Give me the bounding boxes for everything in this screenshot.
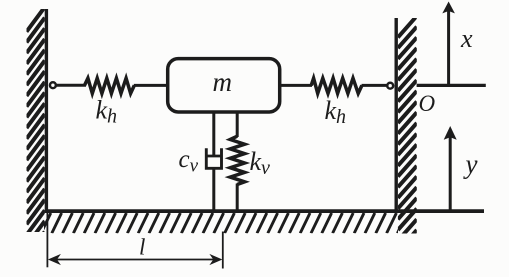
pivot circle on right wall [387, 83, 393, 89]
x axis arrowhead [442, 2, 455, 14]
svg-text:y: y [463, 149, 478, 179]
dimension line l [50, 259, 220, 261]
dimension arrowhead right [209, 254, 222, 265]
spring kv vertical [230, 136, 244, 184]
rod: mass bottom to spring kv [236, 111, 239, 137]
wire: mass right to spring [280, 84, 313, 87]
svg-text:x: x [460, 24, 473, 53]
svg-text:O: O [419, 91, 436, 116]
rod: mass bottom to damper piston [212, 111, 215, 157]
damper cylinder cv [206, 148, 221, 168]
spring kh left [85, 78, 135, 93]
rod: damper to ground [212, 168, 215, 212]
svg-text:l: l [139, 235, 145, 260]
wire: spring to right wall circle [362, 84, 387, 87]
wire: left wall circle to spring [56, 84, 86, 87]
left wall hatching [27, 7, 45, 277]
left wall face line [45, 9, 48, 213]
damper piston plate [205, 155, 222, 158]
x axis arrow stem [447, 11, 450, 85]
right wall face line [395, 18, 398, 213]
extension line below damper [222, 232, 224, 269]
ground surface line [45, 209, 484, 213]
y axis arrow stem [449, 136, 452, 211]
rod: spring kv to ground [236, 184, 239, 213]
x axis line at O level [417, 84, 486, 87]
pivot circle on left wall [50, 82, 56, 88]
spring kh right [311, 78, 362, 93]
y axis arrowhead [444, 126, 457, 140]
extension line below left wall [46, 213, 48, 267]
ground hatching [30, 213, 407, 233]
dimension arrowhead left [48, 254, 61, 265]
mass m block [168, 59, 280, 112]
svg-text:m: m [213, 67, 233, 97]
wire: spring to mass left [134, 84, 168, 87]
right wall hatching [398, 16, 417, 277]
